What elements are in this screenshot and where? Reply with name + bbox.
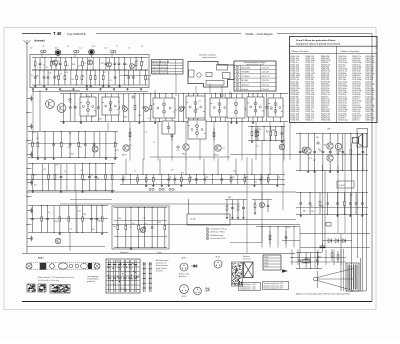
svg-text:5,6k: 5,6k [143,217,146,219]
svg-text:R und C-Werte der gedruckten P: R und C-Werte der gedruckten Platine [296,39,336,42]
svg-text:LW 150-350 517 460: LW 150-350 517 460 [153,65,167,67]
wire [26,191,296,193]
transistor T18 [302,147,308,153]
tuner module box [30,55,149,88]
svg-text:C27: C27 [78,66,81,68]
page outer border [4,28,376,310]
wire [70,199,112,201]
transistor T12 [57,104,66,113]
svg-text:KW 5,9-6,2 6,51 460: KW 5,9-6,2 6,51 460 [153,70,167,72]
svg-text:10k: 10k [53,61,56,63]
svg-text:C9: C9 [109,80,111,82]
IF transformer Fi5 [210,98,229,117]
arrow symbol 2 [206,288,209,292]
measure point 5 [255,130,257,133]
svg-text:8,2: 8,2 [199,100,201,102]
svg-text:T6: T6 [118,102,120,104]
svg-text:T6: T6 [64,171,66,173]
svg-text:47n: 47n [174,109,177,111]
svg-text:41,8: 41,8 [92,46,95,48]
tuner lower ladder [32,70,149,88]
output ladder [296,133,368,173]
transistor T16 [215,145,222,152]
connection box LS [187,214,230,225]
svg-text:Component values of printed ci: Component values of printed circuit boar… [296,42,341,45]
svg-text:47n: 47n [125,64,128,66]
svg-text:C12: C12 [256,146,259,148]
svg-text:R130 750: R130 750 [291,120,299,122]
svg-text:2k2: 2k2 [81,170,84,172]
wire [229,91,231,98]
measure point 2 [69,98,71,101]
svg-text:C10: C10 [104,48,107,50]
svg-text:220: 220 [55,76,58,78]
mains note box [263,282,289,290]
transistor T4 [129,63,134,68]
svg-text:4,7k: 4,7k [131,224,134,226]
svg-text:C-Reihe = Capacitors: C-Reihe = Capacitors [340,50,359,53]
svg-text:47n: 47n [113,226,116,228]
svg-text:C330 10u: C330 10u [365,120,373,122]
wire [120,75,151,77]
svg-text:2k2: 2k2 [145,223,148,225]
IF transformer Fi7 [268,98,283,117]
voltage table rows [234,65,276,91]
svg-text:1,2: 1,2 [79,48,81,50]
left border taps [26,96,32,242]
table column rule [290,53,378,55]
ground [86,88,88,90]
svg-text:ZF 460kHz: ZF 460kHz [242,76,250,78]
svg-text:bei 220V~: bei 220V~ [156,270,163,272]
mains transformer Tr1 [346,258,366,291]
svg-text:UKW 87-100 10,7 10,7: UKW 87-100 10,7 10,7 [153,73,169,75]
scale lamp block 3 [50,285,70,294]
svg-text:Type 9ORL02 B: Type 9ORL02 B [67,32,86,36]
ground [59,88,61,90]
svg-text:5p: 5p [137,60,139,62]
svg-text:LS 4Ω: LS 4Ω [190,219,196,221]
svg-text:0,1: 0,1 [222,148,224,150]
svg-text:R36: R36 [124,117,127,119]
ground [45,88,47,90]
svg-text:4,7k: 4,7k [69,228,72,230]
svg-text:220: 220 [351,138,354,140]
small parts table rules [152,63,184,71]
wire [26,179,120,181]
svg-text:330: 330 [36,138,39,140]
transistor T7 [143,106,148,111]
svg-text:R1: R1 [169,177,171,179]
wire [26,60,28,253]
coil L3 [111,50,116,57]
speaker coupling network [225,197,247,219]
transistor T20 [327,155,334,162]
transistor T3 [106,62,111,67]
ground [32,88,34,90]
transistor T1 [52,60,57,65]
tone box [112,206,169,249]
transistor T23 [140,227,145,232]
svg-text:R27: R27 [129,145,132,147]
svg-text:R88: R88 [228,197,231,199]
transistor T14 [123,145,130,152]
svg-text:0,5: 0,5 [148,118,150,120]
measure point 4 [177,146,179,149]
svg-text:C230 1n: C230 1n [352,120,359,122]
component value table box [290,37,378,123]
svg-text:R18: R18 [125,75,128,77]
coil L1 [41,50,46,57]
voltage table box [234,61,276,91]
wire [22,33,51,35]
transistor T19 [327,143,334,150]
svg-text:10k: 10k [59,74,62,76]
power filter ladder [296,252,322,269]
ground [99,88,101,90]
svg-text:R61: R61 [68,147,71,149]
svg-text:R42: R42 [116,150,119,152]
wire [362,133,364,258]
transistor T15 [183,144,190,151]
wire [188,199,190,214]
svg-text:2x EL95: 2x EL95 [339,185,345,187]
svg-text:4: 4 [237,80,238,82]
svg-text:R27: R27 [181,172,184,174]
fuse Si1 [302,260,310,263]
svg-text:C44: C44 [74,107,77,109]
svg-text:C9: C9 [45,67,47,69]
svg-text:4,7k: 4,7k [146,79,149,81]
wire [60,90,80,92]
wire [209,84,211,94]
svg-text:1n: 1n [266,130,268,132]
tone control ladder [114,207,167,250]
svg-text:68: 68 [142,61,144,63]
svg-text:R24: R24 [99,118,102,120]
svg-text:R36: R36 [321,206,324,208]
svg-text:C12: C12 [91,70,94,72]
svg-text:68: 68 [190,177,192,179]
diode pinout symbol [191,264,198,268]
PCB outline block [188,62,234,88]
svg-text:NF -6dB: NF -6dB [242,80,248,82]
svg-text:C15: C15 [43,169,46,171]
svg-text:T 40: T 40 [53,31,62,36]
svg-text:0,1: 0,1 [66,65,68,67]
tuner top labels [30,46,143,50]
IF transformer Fi2 [102,97,119,115]
svg-text:6,3: 6,3 [30,48,32,50]
left ladder A [28,131,119,160]
svg-text:6,1V 4,0V: 6,1V 4,0V [262,89,270,91]
svg-text:2,4V 0,9V: 2,4V 0,9V [262,80,270,82]
svg-text:8,5V 1,2V: 8,5V 1,2V [262,85,270,87]
svg-text:MW 510-1640 973 460: MW 510-1640 973 460 [153,67,169,69]
svg-text:0,5: 0,5 [141,46,143,48]
svg-text:5,6k: 5,6k [138,115,141,117]
svg-text:1k5: 1k5 [71,79,74,81]
wire [277,33,372,35]
connector strip block [232,262,243,286]
wire [366,133,368,291]
svg-text:2: 2 [237,71,238,73]
IF transformer Fi1 [80,97,96,116]
svg-text:SAUBA — Circuit Diagram: SAUBA — Circuit Diagram [245,33,272,36]
svg-text:0,1: 0,1 [48,212,50,214]
wire [175,74,177,96]
ground [126,88,128,90]
wire [112,223,300,225]
svg-text:Skalenseilauflauf : 2 1/2 Umdr: Skalenseilauflauf : 2 1/2 Umdrehungen am… [38,277,74,279]
transistor T8 [178,106,183,111]
interstage wires [129,122,284,161]
ground [140,88,142,90]
wire [150,156,230,158]
tuning capacitor C2 [89,49,95,57]
ground [72,88,74,90]
svg-text:L4: L4 [67,46,69,48]
svg-text:C12: C12 [254,181,257,183]
wire [261,140,263,242]
svg-text:R36: R36 [323,145,326,147]
small box component [326,223,331,227]
dial cord drive [26,263,100,270]
IF transformer Fi6 [247,97,264,117]
svg-text:68: 68 [82,76,84,78]
svg-text:R36: R36 [90,175,93,177]
svg-text:gemessen gegen Chassis: gemessen gegen Chassis [246,64,264,66]
svg-text:R36: R36 [36,76,39,78]
rectifier diodes [256,227,370,248]
wire [60,203,240,205]
annotation labels [31,61,352,229]
svg-text:C27: C27 [301,152,304,154]
svg-text:4,7k: 4,7k [176,150,179,152]
wire [195,86,197,94]
wire [282,126,284,210]
wire [69,232,71,251]
svg-text:1n: 1n [43,65,45,67]
wire [289,122,291,160]
notes text block [156,259,169,272]
scale lamp block 2 [38,284,46,292]
svg-text:330: 330 [319,150,322,152]
svg-text:R24: R24 [55,221,58,223]
svg-text:1n: 1n [134,171,136,173]
svg-text:0,65V 2,1V: 0,65V 2,1V [262,76,271,78]
speaker LS1 [353,129,368,148]
pushbutton switch assembly [106,259,140,293]
wire [282,240,300,242]
switch contact columns [143,262,153,292]
wire [32,90,34,132]
svg-text:R230 1k: R230 1k [306,120,313,122]
svg-text:R330 100k: R330 100k [321,120,330,122]
transistor T10 [240,106,245,111]
transistor T21 [305,148,312,155]
svg-text:4,7k: 4,7k [83,63,86,65]
transistor T24 [335,143,342,150]
svg-text:R24: R24 [71,153,74,155]
wire [27,246,105,248]
wire [22,253,295,255]
svg-text:68p: 68p [316,137,319,139]
transistor pinout B2 [214,256,222,268]
svg-text:4,7k: 4,7k [309,158,312,160]
IF strip ladder [60,93,288,124]
wire [299,227,301,255]
svg-text:R42: R42 [338,151,341,153]
wire [75,190,77,232]
svg-text:330: 330 [350,194,353,196]
wire [344,133,346,233]
svg-text:R42: R42 [231,177,234,179]
wire [357,143,359,258]
svg-text:0,1: 0,1 [31,75,33,77]
small parts table box [152,60,184,75]
antenna [24,40,31,60]
wire [26,174,120,176]
X service box [244,262,254,278]
table header rule [290,45,378,47]
svg-text:0,5: 0,5 [129,227,131,229]
svg-text:Gedruckte Schaltung: Gedruckte Schaltung [199,54,215,57]
connector pair [159,188,164,190]
output ladder low [296,192,368,217]
transistor T11 [46,100,55,109]
tuner upper ladder [32,57,148,71]
svg-text:T2: T2 [116,46,118,48]
svg-text:Seil 0,6 mm Ø ca. 62 cm lang: Seil 0,6 mm Ø ca. 62 cm lang [38,280,59,282]
wire [96,33,241,35]
lower left ladder [28,205,108,235]
measure point 1 [132,96,134,99]
wire [371,34,373,302]
wire [154,90,156,98]
svg-text:1: 1 [237,67,238,69]
svg-text:42,6: 42,6 [55,48,58,50]
IF transformer Fi3 [153,98,175,118]
transistor pinout B1 [180,257,188,271]
svg-text:C130 120p: C130 120p [338,120,347,122]
legend list [206,228,227,240]
voltage selector box [263,255,281,270]
voltage table header rule [234,64,276,66]
transistor T2 [87,60,92,65]
middle bus network [120,159,285,187]
svg-text:100: 100 [69,102,72,104]
svg-text:47n: 47n [34,184,37,186]
svg-text:10n: 10n [278,177,281,179]
svg-text:6: 6 [237,89,238,91]
connector pair [169,188,174,190]
svg-text:R24: R24 [118,218,121,220]
svg-text:R24: R24 [258,129,261,131]
svg-text:C2: C2 [42,46,44,48]
svg-text:T-Reihe = Resistors: T-Reihe = Resistors [291,50,309,53]
svg-text:C4: C4 [145,132,147,134]
detector ladder [248,126,285,143]
voltage selector rows [263,257,281,268]
wire [322,165,324,247]
scale lamp block 1 [27,284,36,292]
wire [221,86,223,94]
svg-text:R27: R27 [101,63,104,65]
wire [314,171,316,268]
transistor T9 [229,106,234,111]
svg-text:gegen Chassis: gegen Chassis [156,268,167,270]
wire [32,91,148,93]
svg-text:0,2V 1,8V: 0,2V 1,8V [262,67,270,69]
svg-text:C33: C33 [311,211,314,213]
small parts table dividers [160,60,176,75]
driver bias network [252,192,272,214]
svg-text:2k2: 2k2 [109,104,112,106]
detector box [227,98,245,118]
IF transformer Fi8 [162,121,175,134]
left ladder B [28,163,115,193]
svg-text:5,6k: 5,6k [55,164,58,166]
svg-text:C33: C33 [78,211,81,213]
svg-text:C12: C12 [272,130,275,132]
svg-text:68p: 68p [303,210,306,212]
svg-text:47n: 47n [65,72,68,74]
wire [337,165,339,233]
transistor pinout B4 [194,287,202,295]
svg-text:Antennab: Antennab [34,40,45,43]
svg-text:4,7k: 4,7k [171,170,174,172]
svg-text:Tonabnehmer / Pick-up: Tonabnehmer / Pick-up [211,229,228,231]
svg-text:C9: C9 [124,177,126,179]
IF transformer Fi9 [188,120,206,139]
electrolytic capacitor C90 [320,243,326,252]
wire [324,170,326,247]
svg-text:22p: 22p [233,171,236,173]
svg-text:R24: R24 [72,64,75,66]
ground [113,88,115,90]
connector pair [149,188,154,190]
svg-text:C44: C44 [33,132,36,134]
wire [230,242,262,244]
transistor T13 [92,146,98,152]
dial cord pointer run [314,269,354,291]
svg-text:R61: R61 [196,109,199,111]
transistor T22 [55,238,61,244]
wire [107,123,109,131]
measure point 6 [317,142,319,145]
svg-text:4,7k: 4,7k [57,64,60,66]
svg-text:5: 5 [237,84,238,86]
label box output [337,181,354,188]
note box bottom [239,283,261,291]
wire [230,219,296,221]
coil L2 [74,50,79,57]
svg-text:0,1: 0,1 [92,116,94,118]
arrow symbol [282,269,288,273]
svg-text:C45: C45 [49,72,52,74]
svg-text:FM 94MHz: FM 94MHz [242,72,250,74]
svg-text:R36: R36 [205,177,208,179]
svg-text:10k: 10k [358,154,361,156]
wire [351,143,353,264]
transistor T6 [122,106,127,111]
power distribution mesh [262,226,347,291]
tuning capacitor C1 [55,50,61,58]
svg-text:1,1V 0,4V: 1,1V 0,4V [262,72,270,74]
measure point 3 [221,94,223,97]
svg-text:3: 3 [237,76,238,78]
